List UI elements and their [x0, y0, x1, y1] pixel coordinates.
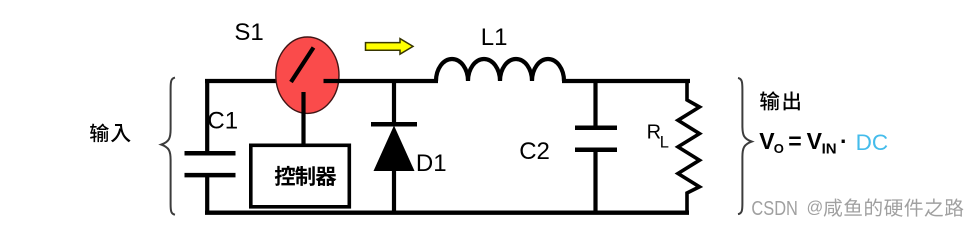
diode D1 triangle [374, 126, 415, 172]
svg-text:CSDN: CSDN [751, 198, 798, 220]
wire top rail right of switch [324, 79, 439, 83]
wire C2 bottom [593, 151, 597, 214]
svg-text:·: · [840, 128, 848, 154]
wire C2 top [593, 81, 597, 128]
svg-text:L1: L1 [481, 24, 508, 51]
svg-text:@: @ [807, 198, 824, 216]
resistor RL [678, 79, 700, 214]
current flow arrow [366, 39, 414, 55]
svg-text:=: = [788, 128, 801, 154]
svg-text:C2: C2 [519, 138, 550, 165]
wire top rail right segment [562, 79, 690, 83]
wire diode top [392, 81, 396, 124]
right brace [738, 78, 752, 214]
输入 input label [90, 124, 109, 143]
controller box [251, 145, 349, 207]
switch S1 arm [291, 48, 314, 83]
inductor L1 [436, 59, 564, 81]
控制器 controller label [275, 166, 295, 186]
svg-text:O: O [774, 141, 784, 156]
wire left branch top [205, 79, 209, 152]
svg-text:C1: C1 [207, 108, 238, 135]
switch S1 red ellipse [276, 37, 339, 113]
capacitor C2 top plate [575, 125, 617, 130]
wire control line [301, 92, 305, 147]
capacitor C1 top plate [185, 151, 236, 156]
capacitor C2 bottom plate [575, 147, 617, 152]
capacitor C1 bottom plate [185, 173, 236, 178]
svg-text:S1: S1 [234, 19, 263, 46]
diode D1 cathode bar [371, 122, 417, 127]
svg-text:IN: IN [822, 140, 837, 157]
wire left branch bottom [205, 176, 209, 214]
left brace [161, 78, 175, 215]
wire top rail left segment [205, 79, 293, 83]
wire bottom rail [205, 210, 689, 214]
svg-text:V: V [807, 128, 823, 154]
svg-text:DC: DC [856, 130, 889, 155]
wire diode bottom [392, 170, 396, 214]
svg-text:L: L [660, 133, 669, 151]
输出 output label [760, 91, 779, 110]
svg-text:D1: D1 [416, 150, 447, 177]
